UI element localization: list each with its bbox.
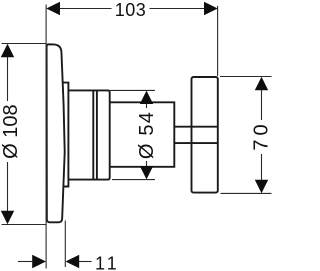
arrow 11 right pointing left: [66, 255, 80, 269]
handle hub upper line: [174, 126, 218, 128]
arrow 103 right: [204, 2, 218, 16]
dim 11 left tail: [18, 261, 32, 263]
dim 54 top extension line: [110, 89, 155, 91]
sleeve D54 body: [68, 90, 109, 179]
reference line at escutcheon face: [45, 5, 47, 269]
svg-text:Ø 54: Ø 54: [136, 111, 158, 159]
arrow 11 left pointing right: [32, 255, 46, 269]
handle bar: [192, 77, 218, 193]
dim 11 right tail: [79, 261, 92, 263]
dim 54 line upper segment: [146, 103, 148, 108]
svg-text:70: 70: [250, 120, 272, 150]
dim 70 line upper segment: [261, 89, 263, 120]
sleeve joint line b: [96, 90, 98, 179]
cartridge housing box: [110, 102, 175, 167]
dim 108 bottom extension line: [2, 224, 47, 226]
svg-text:Ø 108: Ø 108: [0, 104, 22, 158]
arrow 108 down: [1, 211, 14, 225]
arrow 70 down: [255, 180, 268, 194]
arrow 54 up: [140, 91, 153, 104]
arrow 103 left: [46, 2, 60, 16]
dim 70 line lower segment: [261, 154, 263, 180]
dim 108 line lower segment: [7, 162, 9, 212]
arrow 108 up: [1, 44, 14, 58]
extension line at handle tip: [217, 6, 219, 76]
dim 70 top extension line: [220, 76, 272, 78]
arrow 70 up: [255, 77, 268, 91]
dim 108 line upper segment: [7, 56, 9, 101]
svg-text:103: 103: [115, 0, 147, 20]
handle hub lower line: [174, 142, 218, 144]
dim 108 top extension line: [2, 43, 47, 45]
escutcheon plate outline: [47, 44, 65, 222]
dim 54 bottom extension line: [112, 179, 155, 181]
sleeve joint line a: [92, 90, 94, 179]
extension line at plate bottom corner: [64, 221, 66, 268]
arrow 54 down: [140, 166, 153, 179]
dim 70 bottom extension line: [221, 192, 272, 194]
dim 54 line lower segment: [146, 161, 148, 167]
dim 103 line left segment: [60, 8, 112, 10]
dim 103 line right segment: [150, 8, 205, 10]
collar behind plate: [63, 83, 68, 187]
svg-text:11: 11: [95, 254, 120, 271]
